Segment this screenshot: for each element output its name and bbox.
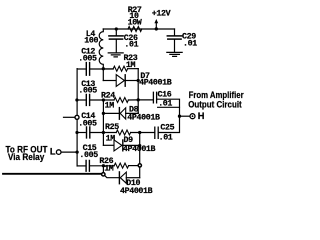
- wire L terminal to left bus: [61, 151, 77, 153]
- node R26-D10 ring junction: [138, 164, 141, 167]
- node D8-midbus: [102, 112, 105, 115]
- svg-text:Via Relay: Via Relay: [8, 152, 45, 162]
- capacitor C15: [86, 160, 89, 171]
- node L-leftbus: [75, 150, 78, 153]
- diode D9 cathode wire: [124, 144, 140, 146]
- capacitor C25: [155, 127, 158, 138]
- node rung2-leftbus: [75, 98, 78, 101]
- svg-text:.01: .01: [124, 41, 138, 50]
- diode D7 anode wire: [103, 80, 116, 82]
- resistor R23: [113, 66, 127, 71]
- node rung3-rightbus: [138, 131, 141, 134]
- wire top rail: [103, 28, 174, 30]
- ground under C29: [167, 52, 182, 56]
- svg-text:4P4001B: 4P4001B: [139, 79, 172, 88]
- svg-text:+12V: +12V: [152, 10, 171, 19]
- svg-text:Output Circuit: Output Circuit: [188, 99, 242, 109]
- svg-text:4P4001B: 4P4001B: [120, 187, 153, 196]
- diode D7 cathode wire: [126, 80, 138, 82]
- resistor R27: [128, 27, 142, 32]
- capacitor C12: [86, 63, 89, 76]
- wire rung1 mid: [90, 68, 113, 70]
- svg-text:R25: R25: [105, 123, 119, 132]
- svg-text:1M: 1M: [106, 134, 116, 143]
- wire rung1 left: [77, 68, 85, 70]
- resistor R26: [114, 163, 128, 168]
- terminal H: [190, 114, 195, 119]
- wire mid bus segment 1: [102, 69, 104, 81]
- wire rung4 left: [77, 165, 85, 167]
- wire right bus segment B: [139, 133, 141, 178]
- node rung2-midbus: [102, 98, 105, 101]
- terminal ring on left bus: [75, 115, 79, 119]
- diode D8 cathode wire: [103, 112, 119, 114]
- power arrow +12V: [155, 23, 157, 29]
- svg-text:.005: .005: [78, 55, 97, 64]
- wire rung3 right: [131, 132, 155, 134]
- svg-text:.005: .005: [79, 151, 98, 160]
- node rung4-midbus: [102, 164, 105, 167]
- C16 box underline: [158, 106, 180, 108]
- svg-text:C16: C16: [158, 90, 172, 99]
- node D9-rightbus: [138, 144, 141, 147]
- svg-text:R24: R24: [101, 91, 115, 100]
- svg-text:C25: C25: [160, 123, 174, 132]
- svg-text:4P4001B: 4P4001B: [127, 114, 160, 123]
- wire bottom rail: [3, 173, 102, 175]
- wire rung4 mid: [90, 165, 115, 167]
- svg-text:H: H: [198, 111, 205, 121]
- wire top rail corner to C29: [174, 29, 176, 35]
- wire rung3 (C14 R25 C25): [77, 132, 85, 134]
- svg-text:10W: 10W: [128, 18, 142, 27]
- svg-text:1M: 1M: [126, 61, 136, 70]
- wire mid bus segment 2: [102, 100, 104, 145]
- wire rung4 right: [129, 165, 138, 167]
- wire H stub: [180, 115, 191, 117]
- wire rung2 mid: [90, 99, 114, 101]
- svg-text:.01: .01: [183, 39, 197, 48]
- diode D8 anode wire: [126, 112, 139, 115]
- wire C16 to corner: [157, 99, 180, 116]
- diode D10 (points left): [118, 172, 120, 184]
- svg-text:.005: .005: [78, 87, 97, 96]
- capacitor C14: [87, 127, 90, 138]
- capacitor C16: [153, 92, 156, 103]
- svg-text:D9: D9: [124, 136, 134, 145]
- node +12V junction: [155, 27, 158, 30]
- diode D9: [114, 140, 122, 151]
- capacitor C29: [167, 35, 181, 37]
- node bottom-midbus ring: [102, 173, 105, 176]
- ground under C26: [108, 53, 123, 57]
- wire mid bus segment 3: [102, 166, 104, 173]
- node top rail / C26: [115, 27, 118, 30]
- svg-text:.01: .01: [158, 100, 172, 109]
- svg-text:4P4001B: 4P4001B: [123, 145, 156, 154]
- wire rung3 mid: [90, 132, 116, 134]
- wire left bus: [76, 69, 78, 166]
- inductor L4: [99, 29, 103, 69]
- wire rung2 left: [77, 99, 85, 101]
- wire rung1 right: [128, 68, 139, 70]
- diode D9 anode wire: [103, 144, 114, 146]
- diode D10 cathode wire: [105, 176, 119, 178]
- svg-text:100: 100: [84, 37, 98, 46]
- svg-text:1M: 1M: [105, 101, 115, 110]
- node D7-rightbus: [137, 79, 140, 82]
- node rung1-midbus: [102, 67, 105, 70]
- wire test stub: [64, 116, 76, 118]
- diode D7: [116, 75, 124, 87]
- svg-text:L: L: [50, 147, 56, 157]
- diode D8 (points left): [118, 108, 120, 120]
- capacitor C26: [115, 29, 117, 35]
- wire rung2 right: [128, 99, 153, 101]
- svg-text:.005: .005: [78, 119, 97, 128]
- svg-text:.01: .01: [159, 134, 173, 143]
- svg-text:1M: 1M: [104, 164, 114, 173]
- terminal L: [56, 150, 61, 155]
- node H junction: [178, 115, 181, 118]
- node rung3-midbus: [102, 131, 105, 134]
- node rung2-rightbus: [137, 98, 140, 101]
- capacitor C13: [86, 94, 89, 105]
- wire right bus segment A: [137, 69, 139, 114]
- diode D10 anode wire: [126, 177, 139, 179]
- wire C25 to corner up: [159, 116, 180, 132]
- resistor R24: [114, 98, 128, 103]
- node rung3-leftbus: [75, 131, 78, 134]
- resistor R25: [116, 130, 130, 135]
